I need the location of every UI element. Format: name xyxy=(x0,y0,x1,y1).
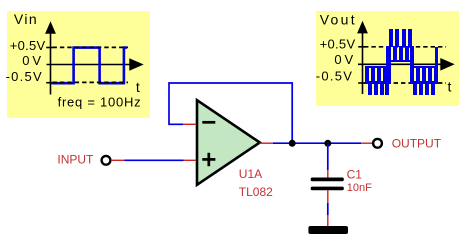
Vin vertical axis arrowhead xyxy=(45,21,56,34)
capacitor C1 top plate xyxy=(311,178,344,182)
svg-text:t: t xyxy=(448,79,452,95)
Vout transition edge 1 xyxy=(386,46,391,84)
Vout oscillating waveform high burst xyxy=(387,29,412,62)
Vout oscillating waveform low burst 1 xyxy=(365,66,389,95)
op-amp output pin stub xyxy=(260,142,273,144)
Vin -0.5V axis tick xyxy=(46,82,53,84)
Vout transition edge 2 xyxy=(410,46,414,84)
output terminal pin stub xyxy=(361,142,372,144)
non-inverting input pin stub xyxy=(184,159,197,161)
output wire xyxy=(273,142,361,144)
svg-text:t: t xyxy=(136,79,140,95)
input wire xyxy=(125,159,184,161)
junction node at feedback tap xyxy=(289,140,296,147)
svg-text:INPUT: INPUT xyxy=(57,153,94,167)
svg-text:-0.5V: -0.5V xyxy=(316,69,353,84)
inverting input pin stub xyxy=(183,123,196,125)
svg-text:+0.5V: +0.5V xyxy=(10,38,46,53)
Vout +0.5V dashed level xyxy=(364,46,446,48)
ground pin stub xyxy=(327,215,329,226)
svg-text:C1: C1 xyxy=(347,167,363,181)
capacitor C1 top pin stub xyxy=(327,170,329,178)
svg-text:OUTPUT: OUTPUT xyxy=(392,137,442,151)
junction node at capacitor tap xyxy=(324,140,331,147)
ground symbol xyxy=(308,226,348,234)
Vout vertical axis xyxy=(362,30,364,94)
svg-text:10nF: 10nF xyxy=(347,182,372,194)
svg-text:TL082: TL082 xyxy=(239,185,273,199)
Vin square waveform xyxy=(52,48,127,84)
svg-text:-0.5V: -0.5V xyxy=(6,69,43,84)
op-amp inverting input minus sign xyxy=(202,121,215,124)
Vout final rising edge xyxy=(435,47,438,82)
OUTPUT terminal circle xyxy=(373,139,382,148)
wire from capacitor node down xyxy=(327,143,329,170)
op-amp non-inverting input plus sign xyxy=(202,153,215,166)
Vout vertical axis arrowhead xyxy=(357,21,368,34)
Vin annotation box xyxy=(7,11,150,118)
capacitor C1 bottom pin stub xyxy=(327,190,329,203)
svg-text:0V: 0V xyxy=(334,52,356,67)
wire from capacitor to ground xyxy=(327,203,329,215)
Vin +0.5V dashed level xyxy=(53,46,129,48)
Vin -0.5V dashed level xyxy=(53,81,129,83)
Vout horizontal axis (0V) xyxy=(358,63,447,65)
Vout -0.5V axis tick xyxy=(358,82,365,84)
op-amp U1A triangle body xyxy=(197,100,260,185)
Vout annotation box xyxy=(316,11,459,106)
svg-text:0V: 0V xyxy=(22,53,44,68)
Vin horizontal axis (0V) xyxy=(47,64,137,66)
Vin +0.5V axis tick xyxy=(46,47,53,49)
feedback wire (output to inverting input) xyxy=(169,83,292,143)
Vin vertical axis xyxy=(50,30,52,95)
Vout +0.5V axis tick xyxy=(358,46,365,48)
input terminal pin stub xyxy=(111,159,125,161)
Vout oscillating waveform low burst 2 xyxy=(410,66,438,95)
svg-text:Vin: Vin xyxy=(14,11,38,27)
INPUT terminal circle xyxy=(102,156,111,165)
capacitor C1 bottom plate xyxy=(311,187,344,191)
Vin horizontal axis arrowhead xyxy=(129,58,143,71)
svg-text:freq = 100Hz: freq = 100Hz xyxy=(58,95,142,110)
svg-text:U1A: U1A xyxy=(239,167,262,181)
Vout horizontal axis arrowhead xyxy=(440,58,454,71)
svg-text:Vout: Vout xyxy=(320,11,357,27)
Vout -0.5V dashed level xyxy=(364,82,446,84)
svg-text:+0.5V: +0.5V xyxy=(320,36,356,51)
